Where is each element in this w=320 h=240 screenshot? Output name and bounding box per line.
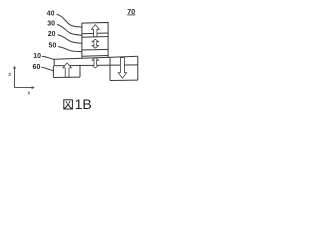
leader line 30 — [57, 25, 82, 36]
layer 50 bottom line — [82, 55, 108, 58]
box 60 bottom edge — [53, 76, 80, 78]
svg-text:10: 10 — [33, 53, 41, 60]
svg-text:1B: 1B — [75, 96, 92, 112]
svg-text:z: z — [8, 72, 11, 78]
up arrow in box 60 — [63, 63, 71, 77]
svg-text:50: 50 — [49, 43, 57, 50]
svg-text:60: 60 — [33, 64, 41, 71]
layer boundary 20/50 — [82, 48, 108, 51]
leader line 10 — [42, 56, 54, 59]
caption 図 1B — [64, 100, 73, 109]
box 60 right edge — [79, 65, 81, 77]
bar 10 top edge — [54, 56, 138, 59]
bar 10 bottom edge — [54, 64, 138, 67]
layer boundary 40/30 — [82, 32, 108, 35]
right box bottom edge — [110, 79, 138, 81]
svg-text:20: 20 — [48, 31, 56, 38]
svg-text:x: x — [27, 90, 30, 96]
svg-text:40: 40 — [47, 10, 55, 17]
layer stack outline (layers 40/30/20/50) — [82, 22, 108, 58]
coordinate axes — [15, 68, 33, 87]
svg-text:30: 30 — [47, 21, 55, 28]
layer boundary 30/20 — [82, 36, 108, 39]
down arrow in right box — [118, 58, 126, 79]
leader line 60 — [42, 67, 54, 70]
right box left edge — [109, 57, 111, 80]
up arrow in layer 40 — [91, 25, 99, 37]
bar 10 / box right edge — [137, 56, 139, 80]
leader line 40 — [57, 14, 82, 27]
double arrow in layer 20 — [92, 39, 98, 48]
bar 10 left edge — [53, 59, 55, 66]
box 60 left edge — [52, 66, 54, 78]
leader line 20 — [58, 35, 82, 43]
leader line 50 — [58, 47, 82, 52]
double arrow through bar 10 — [92, 58, 98, 68]
